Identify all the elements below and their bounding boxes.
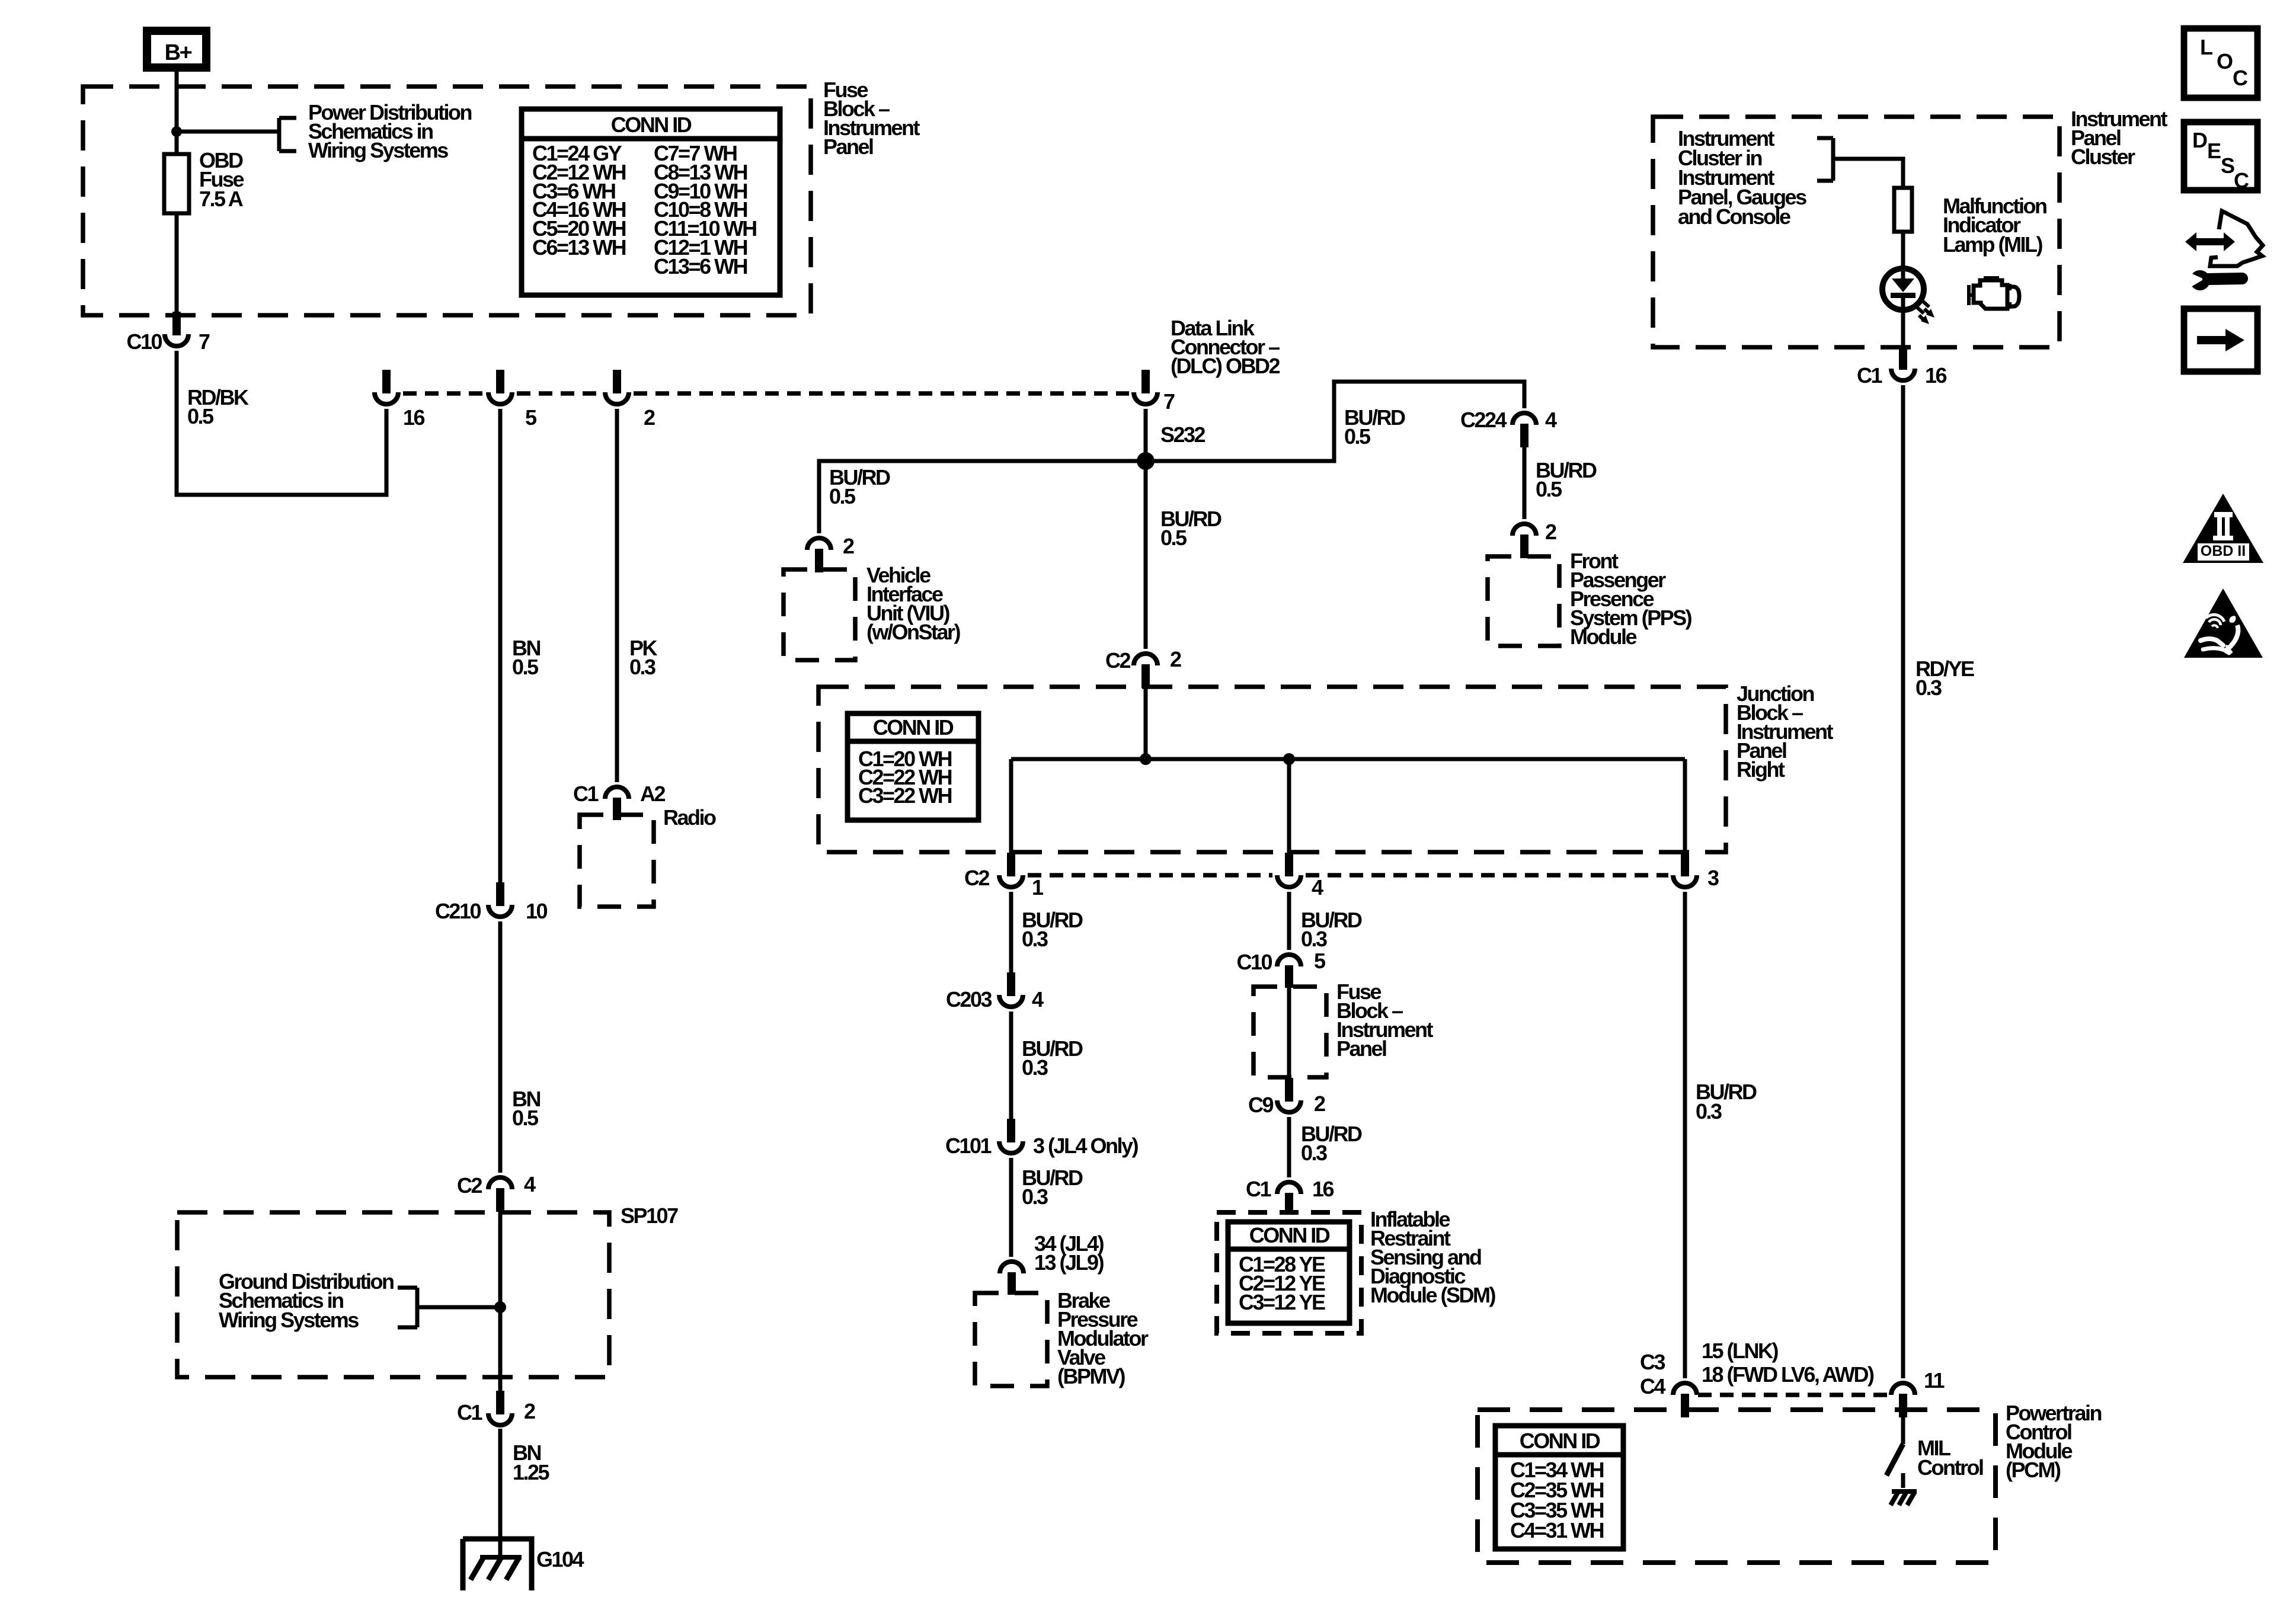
svg-text:2: 2 bbox=[1545, 520, 1556, 544]
label C3 C4 bbox=[1640, 1350, 1665, 1398]
wire C2-2 down to internal bus bbox=[1144, 688, 1148, 759]
svg-text:3 (JL4 Only): 3 (JL4 Only) bbox=[1033, 1134, 1139, 1158]
svg-text:13 (JL9): 13 (JL9) bbox=[1034, 1250, 1104, 1275]
pin label 15 (LNK) 18 (FWD LV6, AWD) bbox=[1702, 1339, 1874, 1387]
wire S232 right to C224 bbox=[1146, 382, 1524, 461]
connector C2 pin 4 (SP107 in) bbox=[457, 1172, 536, 1212]
svg-text:S232: S232 bbox=[1160, 422, 1205, 447]
CONN ID table (fuse block) bbox=[522, 109, 780, 295]
junction block dashed box bbox=[818, 687, 1726, 852]
svg-text:O: O bbox=[2217, 49, 2233, 73]
svg-text:CONN ID: CONN ID bbox=[873, 715, 954, 740]
label Fuse Block - Instrument Panel bbox=[823, 78, 920, 159]
svg-text:Module (SDM): Module (SDM) bbox=[1370, 1283, 1495, 1307]
svg-text:C3=22 WH: C3=22 WH bbox=[858, 783, 952, 808]
dashed bus under junction block bbox=[1028, 873, 1272, 878]
connector pin 5 bbox=[488, 370, 537, 430]
arrow icon bbox=[2184, 309, 2257, 372]
label BU/RD 0.3 bbox=[1022, 908, 1083, 951]
OBD II triangle icon bbox=[2183, 494, 2263, 563]
svg-text:(DLC) OBD2: (DLC) OBD2 bbox=[1171, 354, 1280, 378]
wire dashed bus segment bbox=[634, 391, 1129, 396]
diagnostic car and wrench icon bbox=[2185, 211, 2263, 290]
svg-text:SP107: SP107 bbox=[621, 1204, 678, 1228]
reference bracket instrument cluster bbox=[1817, 138, 1833, 181]
svg-text:C10: C10 bbox=[126, 329, 162, 354]
label BU/RD 0.5 (down) bbox=[1160, 507, 1221, 550]
svg-text:0.3: 0.3 bbox=[1022, 1055, 1048, 1080]
connector BPMV pin bbox=[1000, 1262, 1024, 1295]
label BU/RD 0.3 bbox=[1022, 1036, 1083, 1080]
svg-text:0.3: 0.3 bbox=[1696, 1099, 1722, 1124]
label Instrument Panel Cluster bbox=[2071, 107, 2168, 169]
svg-text:16: 16 bbox=[1925, 363, 1947, 388]
connector C210 pin 10 bbox=[435, 882, 548, 923]
svg-text:C2: C2 bbox=[457, 1173, 482, 1198]
svg-text:0.5: 0.5 bbox=[1160, 526, 1187, 550]
label Ground Distribution Schematics bbox=[219, 1269, 394, 1332]
connector C10 pin 5 bbox=[1236, 949, 1326, 988]
svg-text:C3=12 YE: C3=12 YE bbox=[1239, 1290, 1325, 1314]
svg-text:0.3: 0.3 bbox=[1916, 676, 1942, 700]
label Malfunction Indicator Lamp (MIL) bbox=[1943, 194, 2046, 257]
junction dot SP107 bbox=[494, 1301, 506, 1313]
svg-text:S: S bbox=[2221, 153, 2234, 178]
svg-text:Wiring Systems: Wiring Systems bbox=[308, 138, 448, 162]
connector C224 pin 4 bbox=[1460, 408, 1557, 447]
svg-text:0.5: 0.5 bbox=[187, 404, 214, 428]
splice S232 bbox=[1137, 452, 1155, 470]
svg-text:18 (FWD LV6, AWD): 18 (FWD LV6, AWD) bbox=[1702, 1362, 1874, 1387]
svg-text:C210: C210 bbox=[435, 899, 481, 923]
wire branch to reference bracket bbox=[177, 130, 279, 134]
svg-text:16: 16 bbox=[403, 405, 425, 430]
svg-text:Panel: Panel bbox=[1336, 1036, 1386, 1061]
connector pin 11 bbox=[1891, 1368, 1945, 1417]
label BU/RD 0.3 bbox=[1301, 1122, 1362, 1165]
VIU dashed box bbox=[784, 569, 855, 660]
CONN ID table (PCM) bbox=[1495, 1426, 1623, 1549]
connector pin 4 bbox=[1277, 853, 1323, 900]
svg-text:A2: A2 bbox=[640, 782, 665, 806]
connector C3/C4 pin bbox=[1673, 1383, 1697, 1417]
svg-text:CONN ID: CONN ID bbox=[1520, 1429, 1600, 1453]
wire bracket to lamp bbox=[1833, 159, 1903, 188]
svg-text:0.5: 0.5 bbox=[512, 655, 539, 679]
svg-text:16: 16 bbox=[1312, 1177, 1334, 1201]
fuse block small dashed box bbox=[1253, 987, 1326, 1077]
svg-text:Lamp (MIL): Lamp (MIL) bbox=[1943, 232, 2042, 257]
wire S232 left to VIU bbox=[819, 461, 1146, 533]
svg-text:C9: C9 bbox=[1248, 1093, 1273, 1117]
wire resistor to LED bbox=[1901, 232, 1905, 279]
connector C9 pin 2 bbox=[1248, 1078, 1325, 1117]
radio dashed box bbox=[580, 815, 654, 907]
svg-text:C4: C4 bbox=[1640, 1374, 1665, 1398]
svg-text:Right: Right bbox=[1737, 757, 1785, 782]
connector C1 pin 16 (cluster) bbox=[1857, 347, 1947, 388]
svg-text:Module: Module bbox=[1570, 625, 1636, 649]
label BU/RD 0.5 (C224 branch) bbox=[1344, 405, 1405, 449]
svg-text:C: C bbox=[2233, 66, 2248, 90]
svg-text:4: 4 bbox=[524, 1172, 536, 1196]
wire C101 down to BPMV bbox=[1009, 1158, 1013, 1257]
label BU/RD 0.5 (PPS) bbox=[1536, 458, 1597, 501]
wire through fuse block bbox=[1287, 987, 1291, 1078]
svg-text:0.5: 0.5 bbox=[1536, 477, 1562, 501]
airbag warning triangle icon bbox=[2184, 588, 2263, 658]
LED MIL lamp bbox=[1882, 268, 1924, 347]
wire fuse down to connector C10 bbox=[175, 213, 179, 312]
svg-text:Radio: Radio bbox=[663, 805, 716, 830]
svg-text:CONN ID: CONN ID bbox=[611, 113, 692, 137]
svg-text:(PCM): (PCM) bbox=[2006, 1458, 2061, 1482]
label BN 0.5 bbox=[512, 636, 540, 679]
fuse OBD 7.5 A bbox=[164, 154, 189, 213]
svg-text:G104: G104 bbox=[536, 1547, 584, 1571]
connector pin 16 bbox=[375, 370, 425, 430]
svg-text:C224: C224 bbox=[1460, 408, 1507, 432]
svg-text:7: 7 bbox=[1163, 389, 1175, 414]
svg-text:(BPMV): (BPMV) bbox=[1057, 1364, 1125, 1388]
pin label 34 (JL4) 13 (JL9) bbox=[1034, 1231, 1104, 1275]
engine icon (MIL) bbox=[1969, 278, 2019, 309]
junction dot bbox=[1283, 753, 1295, 765]
wire pin4 down to C10 bbox=[1287, 892, 1291, 950]
label Fuse Block - Instrument Panel bbox=[1336, 980, 1434, 1061]
svg-text:C13=6 WH: C13=6 WH bbox=[654, 254, 747, 279]
wire C203 down to C101 bbox=[1009, 1012, 1013, 1119]
ground G104 bbox=[463, 1539, 584, 1590]
svg-text:C1: C1 bbox=[573, 782, 599, 806]
svg-text:0.3: 0.3 bbox=[629, 655, 655, 679]
wire PK down from pin 2 bbox=[615, 409, 619, 782]
wire RD/YE from cluster down to PCM pin 11 bbox=[1901, 385, 1905, 1378]
svg-text:1: 1 bbox=[1032, 875, 1044, 900]
label Inflatable Restraint SDM bbox=[1370, 1207, 1495, 1307]
svg-text:Wiring Systems: Wiring Systems bbox=[219, 1308, 359, 1332]
label RD/YE 0.3 bbox=[1916, 657, 1974, 700]
label Instrument Cluster in Instrument Panel, Gauges and Console bbox=[1678, 126, 1806, 229]
svg-text:0.3: 0.3 bbox=[1022, 1185, 1048, 1209]
svg-text:10: 10 bbox=[526, 899, 548, 923]
svg-text:Control: Control bbox=[1917, 1455, 1983, 1480]
label BU/RD 0.3 bbox=[1022, 1166, 1083, 1209]
cluster dashed box bbox=[1653, 117, 2060, 347]
svg-text:C1: C1 bbox=[457, 1400, 482, 1425]
wire C9 down to C1 bbox=[1287, 1117, 1291, 1177]
wire S232 down to junction block bbox=[1144, 461, 1148, 649]
junction dot bbox=[171, 126, 182, 137]
connector C2 pin 1 bbox=[964, 853, 1044, 900]
svg-text:B+: B+ bbox=[165, 40, 192, 65]
svg-text:C2: C2 bbox=[964, 866, 989, 890]
wire C2-1 down to C203 bbox=[1009, 892, 1013, 972]
svg-text:C2: C2 bbox=[1105, 648, 1130, 673]
svg-text:D: D bbox=[2192, 128, 2207, 152]
connector C1 pin 2 (ground lead) bbox=[457, 1391, 535, 1425]
svg-text:C: C bbox=[2234, 168, 2249, 193]
svg-text:4: 4 bbox=[1545, 408, 1557, 432]
svg-text:C3: C3 bbox=[1640, 1350, 1665, 1374]
LOC icon bbox=[2184, 28, 2257, 98]
wire BN down to C2 bbox=[498, 921, 503, 1173]
svg-text:C101: C101 bbox=[945, 1134, 992, 1158]
label Front Passenger Presence System bbox=[1570, 549, 1692, 649]
wire BN 1.25 to ground bbox=[498, 1429, 503, 1557]
svg-text:C1: C1 bbox=[1246, 1177, 1271, 1201]
label RD/BK 0.5 bbox=[187, 385, 249, 428]
svg-text:7: 7 bbox=[199, 329, 210, 354]
svg-text:5: 5 bbox=[525, 405, 537, 430]
label Data Link Connector (DLC) OBD2 bbox=[1171, 316, 1280, 378]
label BU/RD 0.5 (VIU branch) bbox=[829, 465, 890, 508]
CONN ID table (SDM) bbox=[1228, 1222, 1350, 1323]
svg-text:C203: C203 bbox=[946, 987, 992, 1012]
wire C224 to PPS bbox=[1523, 447, 1527, 519]
label Power Distribution Schematics bbox=[308, 100, 472, 162]
connector pin 3 bbox=[1673, 853, 1719, 890]
fuse block dashed box bbox=[83, 87, 811, 315]
connector C2 pin 2 (junction block in) bbox=[1105, 647, 1181, 688]
svg-text:2: 2 bbox=[524, 1399, 535, 1423]
svg-text:0.5: 0.5 bbox=[829, 484, 856, 508]
svg-text:and Console: and Console bbox=[1678, 204, 1790, 229]
dashed bus wire to DLC bbox=[403, 391, 484, 396]
PCM dashed box bbox=[1478, 1410, 1996, 1563]
connector C1 pin 16 (SDM) bbox=[1246, 1177, 1334, 1214]
BPMV dashed box bbox=[975, 1293, 1047, 1386]
label BU/RD 0.3 bbox=[1696, 1080, 1757, 1124]
wire RD/BK from C10-7 to splice column bbox=[177, 351, 386, 495]
PPS module dashed box bbox=[1488, 556, 1559, 646]
SDM dashed box bbox=[1217, 1212, 1361, 1333]
label BU/RD 0.3 bbox=[1301, 908, 1362, 951]
label OBD Fuse 7.5 A bbox=[199, 148, 244, 211]
svg-text:5: 5 bbox=[1314, 949, 1326, 973]
svg-text:C1: C1 bbox=[1857, 363, 1882, 388]
svg-text:Panel: Panel bbox=[823, 135, 873, 159]
svg-text:7.5 A: 7.5 A bbox=[199, 187, 244, 211]
wire dashed bus segment bbox=[1306, 873, 1668, 878]
svg-text:L: L bbox=[2200, 35, 2212, 59]
wire DLC to S232 bbox=[1144, 409, 1148, 461]
wire down to pin 3 bbox=[1683, 759, 1687, 853]
svg-text:C4=31 WH: C4=31 WH bbox=[1510, 1518, 1604, 1542]
svg-text:0.3: 0.3 bbox=[1301, 927, 1327, 951]
splice SP107 dashed box bbox=[177, 1212, 609, 1377]
wire down to pin 4 bbox=[1287, 759, 1291, 853]
label Junction Block - Instrument Panel Right bbox=[1737, 681, 1834, 782]
svg-text:3: 3 bbox=[1707, 866, 1719, 890]
svg-text:0.5: 0.5 bbox=[1344, 424, 1371, 449]
label Brake Pressure Modulator Valve bbox=[1057, 1288, 1149, 1388]
wire down to C2 pin 1 bbox=[1009, 759, 1013, 853]
connector DLC pin 7 bbox=[1134, 370, 1175, 414]
MIL control switch bbox=[1886, 1417, 1983, 1488]
junction dot bbox=[1140, 753, 1152, 765]
chassis ground (MIL control) bbox=[1891, 1491, 1917, 1505]
connector pin 2 bbox=[605, 370, 655, 430]
wire B+ down to fuse bbox=[175, 72, 179, 154]
label BN 1.25 bbox=[513, 1441, 550, 1484]
label Powertrain Control Module (PCM) bbox=[2006, 1401, 2102, 1482]
label Vehicle Interface Unit bbox=[866, 563, 961, 644]
svg-text:0.3: 0.3 bbox=[1022, 927, 1048, 951]
DESC icon bbox=[2184, 122, 2257, 193]
light emission arrows bbox=[1917, 301, 1934, 324]
dashed bus between C3/C4 and 11 bbox=[1698, 1393, 1890, 1397]
svg-text:4: 4 bbox=[1032, 987, 1044, 1012]
svg-text:11: 11 bbox=[1924, 1368, 1945, 1393]
svg-text:(w/OnStar): (w/OnStar) bbox=[866, 620, 961, 644]
svg-text:C10: C10 bbox=[1236, 950, 1272, 974]
svg-text:Cluster: Cluster bbox=[2071, 145, 2135, 169]
svg-text:0.3: 0.3 bbox=[1301, 1141, 1327, 1165]
internal bus wire bbox=[1011, 757, 1685, 761]
wire BN down from pin 5 bbox=[498, 409, 503, 882]
svg-text:CONN ID: CONN ID bbox=[1249, 1223, 1330, 1247]
reference bracket Power Distribution bbox=[279, 118, 296, 151]
svg-text:1.25: 1.25 bbox=[513, 1460, 550, 1484]
wire dashed bus segment bbox=[517, 391, 600, 396]
connector C10 pin 7 bbox=[126, 312, 210, 354]
battery terminal B+ bbox=[147, 31, 206, 68]
svg-text:2: 2 bbox=[1170, 647, 1181, 671]
label PK 0.3 bbox=[629, 636, 658, 679]
svg-text:OBD II: OBD II bbox=[2201, 543, 2246, 559]
connector C203 pin 4 bbox=[946, 972, 1044, 1012]
label BN 0.5 bbox=[512, 1087, 540, 1130]
svg-text:2: 2 bbox=[1314, 1092, 1325, 1116]
wire through SP107 bbox=[498, 1212, 503, 1391]
connector C101 pin 3 bbox=[945, 1119, 1139, 1158]
resistor (lamp element) bbox=[1894, 188, 1912, 232]
svg-text:2: 2 bbox=[843, 534, 854, 558]
connector C1 pin A2 (radio) bbox=[573, 782, 666, 820]
connector pin 2 (PPS) bbox=[1512, 520, 1556, 558]
svg-text:E: E bbox=[2207, 139, 2221, 163]
svg-text:15 (LNK): 15 (LNK) bbox=[1702, 1339, 1779, 1363]
wire pin3 down to PCM C3/C4 bbox=[1683, 892, 1687, 1378]
svg-text:4: 4 bbox=[1312, 875, 1323, 900]
reference bracket Ground Distribution bbox=[398, 1288, 500, 1327]
svg-text:2: 2 bbox=[644, 405, 655, 430]
svg-text:C6=13 WH: C6=13 WH bbox=[532, 235, 626, 260]
CONN ID table (junction block) bbox=[848, 713, 978, 820]
svg-text:0.5: 0.5 bbox=[512, 1106, 539, 1130]
connector pin 2 (VIU) bbox=[807, 534, 854, 572]
